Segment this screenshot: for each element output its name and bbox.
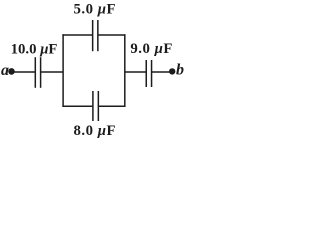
svg-text:9.0 μF: 9.0 μF [130,41,172,57]
wire [41,71,64,73]
capacitor C3 8.0 uF [93,91,98,121]
wire: box top edge left segment [62,34,92,36]
wire: box right edge [124,34,126,107]
svg-text:b: b [176,62,184,79]
svg-text:10.0 μF: 10.0 μF [11,42,58,58]
wire: box left edge [62,34,64,107]
wire [13,71,35,73]
svg-text:a: a [1,62,9,79]
svg-text:8.0 μF: 8.0 μF [74,123,116,139]
wire [152,71,170,73]
wire: box bottom edge left segment [62,105,93,107]
node b [169,68,175,74]
wire: box bottom edge right segment [98,105,125,107]
capacitor C4 9.0 uF [146,60,151,87]
wire [125,71,147,73]
svg-text:5.0 μF: 5.0 μF [74,2,116,18]
capacitor C2 5.0 uF [93,20,98,51]
wire: box top edge right segment [98,34,126,36]
capacitor C1 10.0 uF [35,57,40,88]
